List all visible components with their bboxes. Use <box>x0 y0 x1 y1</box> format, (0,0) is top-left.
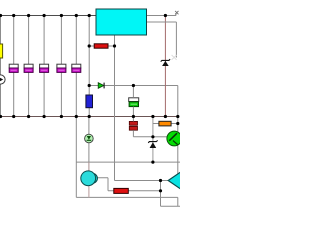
resistor R10 red <box>114 188 129 193</box>
wire column 3 <box>28 16 30 117</box>
op-amp U1 IC block <box>96 9 147 35</box>
node inverting input junction <box>159 189 162 192</box>
signal source SG1 <box>0 75 5 84</box>
capacitor C1 <box>9 64 18 72</box>
wire column 1 <box>0 16 2 117</box>
wire top supply bus <box>1 15 97 17</box>
node resistor R9 row junctions <box>176 122 179 125</box>
wire IC pin 2 stub <box>147 22 177 58</box>
wire bottom 0V bus <box>1 116 178 118</box>
node transistor base junction <box>151 135 154 138</box>
op-amp U2 <box>168 171 181 189</box>
wire diode D1 row <box>89 85 178 87</box>
capacitor C6 wire <box>132 86 134 117</box>
wire column 5 <box>60 16 62 117</box>
node zener ZD2 bottom junction <box>151 161 154 164</box>
resistor R1 yellow <box>0 44 3 58</box>
wire feedback column <box>160 181 162 207</box>
wire microphone output <box>96 178 114 191</box>
node bottom bus junctions <box>0 115 179 118</box>
wire column 7 <box>88 16 90 117</box>
wire column 2 <box>13 16 15 117</box>
wire resistor R10 to inverting node <box>128 190 160 192</box>
node resistor R2 row junctions <box>88 44 117 47</box>
wire mid signal rail <box>76 161 180 163</box>
node opamp output junction <box>159 179 162 182</box>
node top bus junctions <box>0 14 167 17</box>
capacitor C6 green <box>129 98 139 107</box>
wire opamp output row <box>115 180 169 182</box>
wire left drop column <box>75 117 77 198</box>
no-connect flag X top right <box>175 11 178 14</box>
capacitor C7 red <box>129 121 137 130</box>
capacitor C5 <box>72 64 81 72</box>
wire capacitor C7 to base node <box>133 117 153 137</box>
wire zener ZD2 column <box>152 117 154 163</box>
wire microphone column <box>88 117 90 163</box>
capacitor C3 <box>40 64 49 72</box>
wire resistor R2 row <box>89 45 114 47</box>
wire zener ZD1 column <box>164 16 166 117</box>
wire IC pin to opamp output node <box>114 35 116 181</box>
transistor Q1 <box>167 131 182 146</box>
wire column 6 <box>75 16 77 117</box>
resistor R9 orange <box>159 121 171 126</box>
wire transistor collector <box>177 117 179 133</box>
zener ZD2 <box>148 140 157 148</box>
resistor R2 red <box>94 44 108 48</box>
wire bottom rail <box>76 197 180 206</box>
node diode row junctions <box>88 84 135 87</box>
diode D1 green <box>98 83 104 89</box>
wire IC pin 1 stub <box>147 13 177 15</box>
wire column 4 <box>43 16 45 117</box>
resistor R8 blue <box>86 95 93 108</box>
wire resistor R9 row <box>153 123 178 125</box>
wire right drop to bus <box>177 86 179 117</box>
capacitor C2 <box>24 64 33 72</box>
zener ZD1 <box>161 59 170 66</box>
wire transistor base <box>153 136 168 138</box>
microphone MIC1 <box>81 171 98 186</box>
wire transistor emitter to opamp supply <box>177 146 179 175</box>
no-connect flag faint X <box>172 55 177 60</box>
capacitor C4 <box>57 64 66 72</box>
LED D2 <box>85 134 94 143</box>
